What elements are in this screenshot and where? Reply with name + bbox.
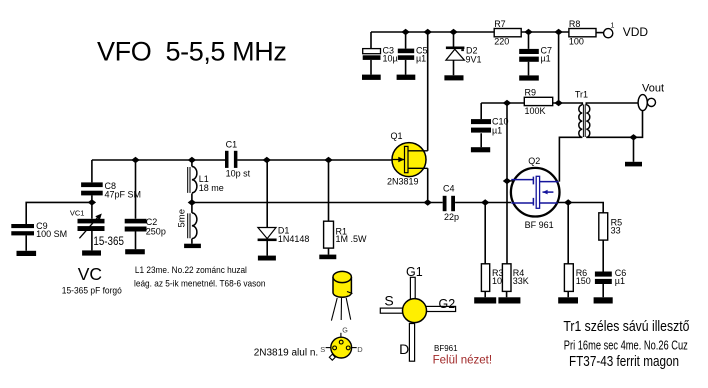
- svg-text:G1: G1: [406, 265, 423, 279]
- svg-text:1: 1: [611, 23, 615, 30]
- svg-text:S: S: [384, 293, 393, 309]
- svg-text:10µ: 10µ: [383, 54, 398, 64]
- svg-text:C2: C2: [146, 217, 158, 227]
- svg-text:VC1: VC1: [70, 208, 85, 217]
- svg-text:Vout: Vout: [642, 83, 664, 95]
- svg-text:R3: R3: [492, 268, 504, 278]
- svg-text:100 SM: 100 SM: [36, 229, 67, 239]
- svg-text:C4: C4: [443, 184, 455, 194]
- svg-text:Felül nézet!: Felül nézet!: [433, 355, 492, 367]
- svg-text:µ1: µ1: [541, 54, 551, 64]
- svg-text:BF961: BF961: [434, 344, 458, 353]
- svg-text:Tr1 széles sávú illesztő: Tr1 széles sávú illesztő: [563, 318, 689, 335]
- svg-text:G2: G2: [439, 297, 456, 311]
- svg-text:L1 23me. No.22 zománc huzal: L1 23me. No.22 zománc huzal: [135, 265, 247, 276]
- svg-text:47pF SM: 47pF SM: [105, 190, 142, 200]
- svg-text:33K: 33K: [513, 276, 529, 286]
- svg-text:250p: 250p: [146, 227, 166, 237]
- svg-text:Pri 16me sec 4me. No.26 Cuz: Pri 16me sec 4me. No.26 Cuz: [564, 338, 688, 353]
- svg-text:S: S: [320, 345, 325, 354]
- svg-text:9V1: 9V1: [466, 55, 482, 65]
- svg-text:33: 33: [611, 226, 621, 236]
- svg-text:µ1: µ1: [615, 276, 625, 286]
- svg-text:C1: C1: [226, 140, 238, 150]
- svg-text:µ1: µ1: [416, 54, 426, 64]
- svg-text:R8: R8: [569, 19, 581, 29]
- svg-text:Tr1: Tr1: [575, 89, 588, 99]
- svg-text:2N3819 alul n.: 2N3819 alul n.: [254, 348, 319, 359]
- svg-text:VDD: VDD: [623, 25, 649, 39]
- svg-text:1M .5W: 1M .5W: [336, 234, 368, 244]
- svg-text:R7: R7: [494, 19, 506, 29]
- svg-text:G: G: [342, 326, 348, 335]
- svg-text:1N4148: 1N4148: [278, 234, 310, 244]
- svg-text:R9: R9: [525, 87, 537, 97]
- svg-text:100: 100: [569, 37, 584, 47]
- svg-text:Q2: Q2: [528, 156, 540, 166]
- svg-text:FT37-43 ferrit magon: FT37-43 ferrit magon: [569, 353, 679, 370]
- svg-text:2N3819: 2N3819: [387, 177, 419, 187]
- svg-text:5me: 5me: [177, 209, 188, 227]
- svg-text:BF 961: BF 961: [525, 220, 554, 230]
- svg-text:22p: 22p: [444, 212, 459, 222]
- svg-text:10p st: 10p st: [226, 169, 251, 179]
- svg-text:Q1: Q1: [391, 131, 403, 141]
- svg-text:150: 150: [576, 276, 591, 286]
- svg-text:100K: 100K: [525, 106, 546, 116]
- svg-text:220: 220: [494, 37, 509, 47]
- svg-text:15-365: 15-365: [93, 236, 124, 248]
- svg-text:15-365 pF forgó: 15-365 pF forgó: [62, 286, 122, 297]
- svg-text:18 me: 18 me: [199, 183, 224, 193]
- svg-text:leág. az 5-ik menetnél. T68-6: leág. az 5-ik menetnél. T68-6 vason: [134, 278, 266, 289]
- svg-text:µ1: µ1: [492, 125, 502, 135]
- svg-text:D: D: [357, 345, 363, 354]
- svg-text:VC: VC: [78, 264, 102, 284]
- svg-text:D: D: [399, 341, 409, 357]
- svg-text:VFO 5-5,5 MHz: VFO 5-5,5 MHz: [97, 37, 286, 67]
